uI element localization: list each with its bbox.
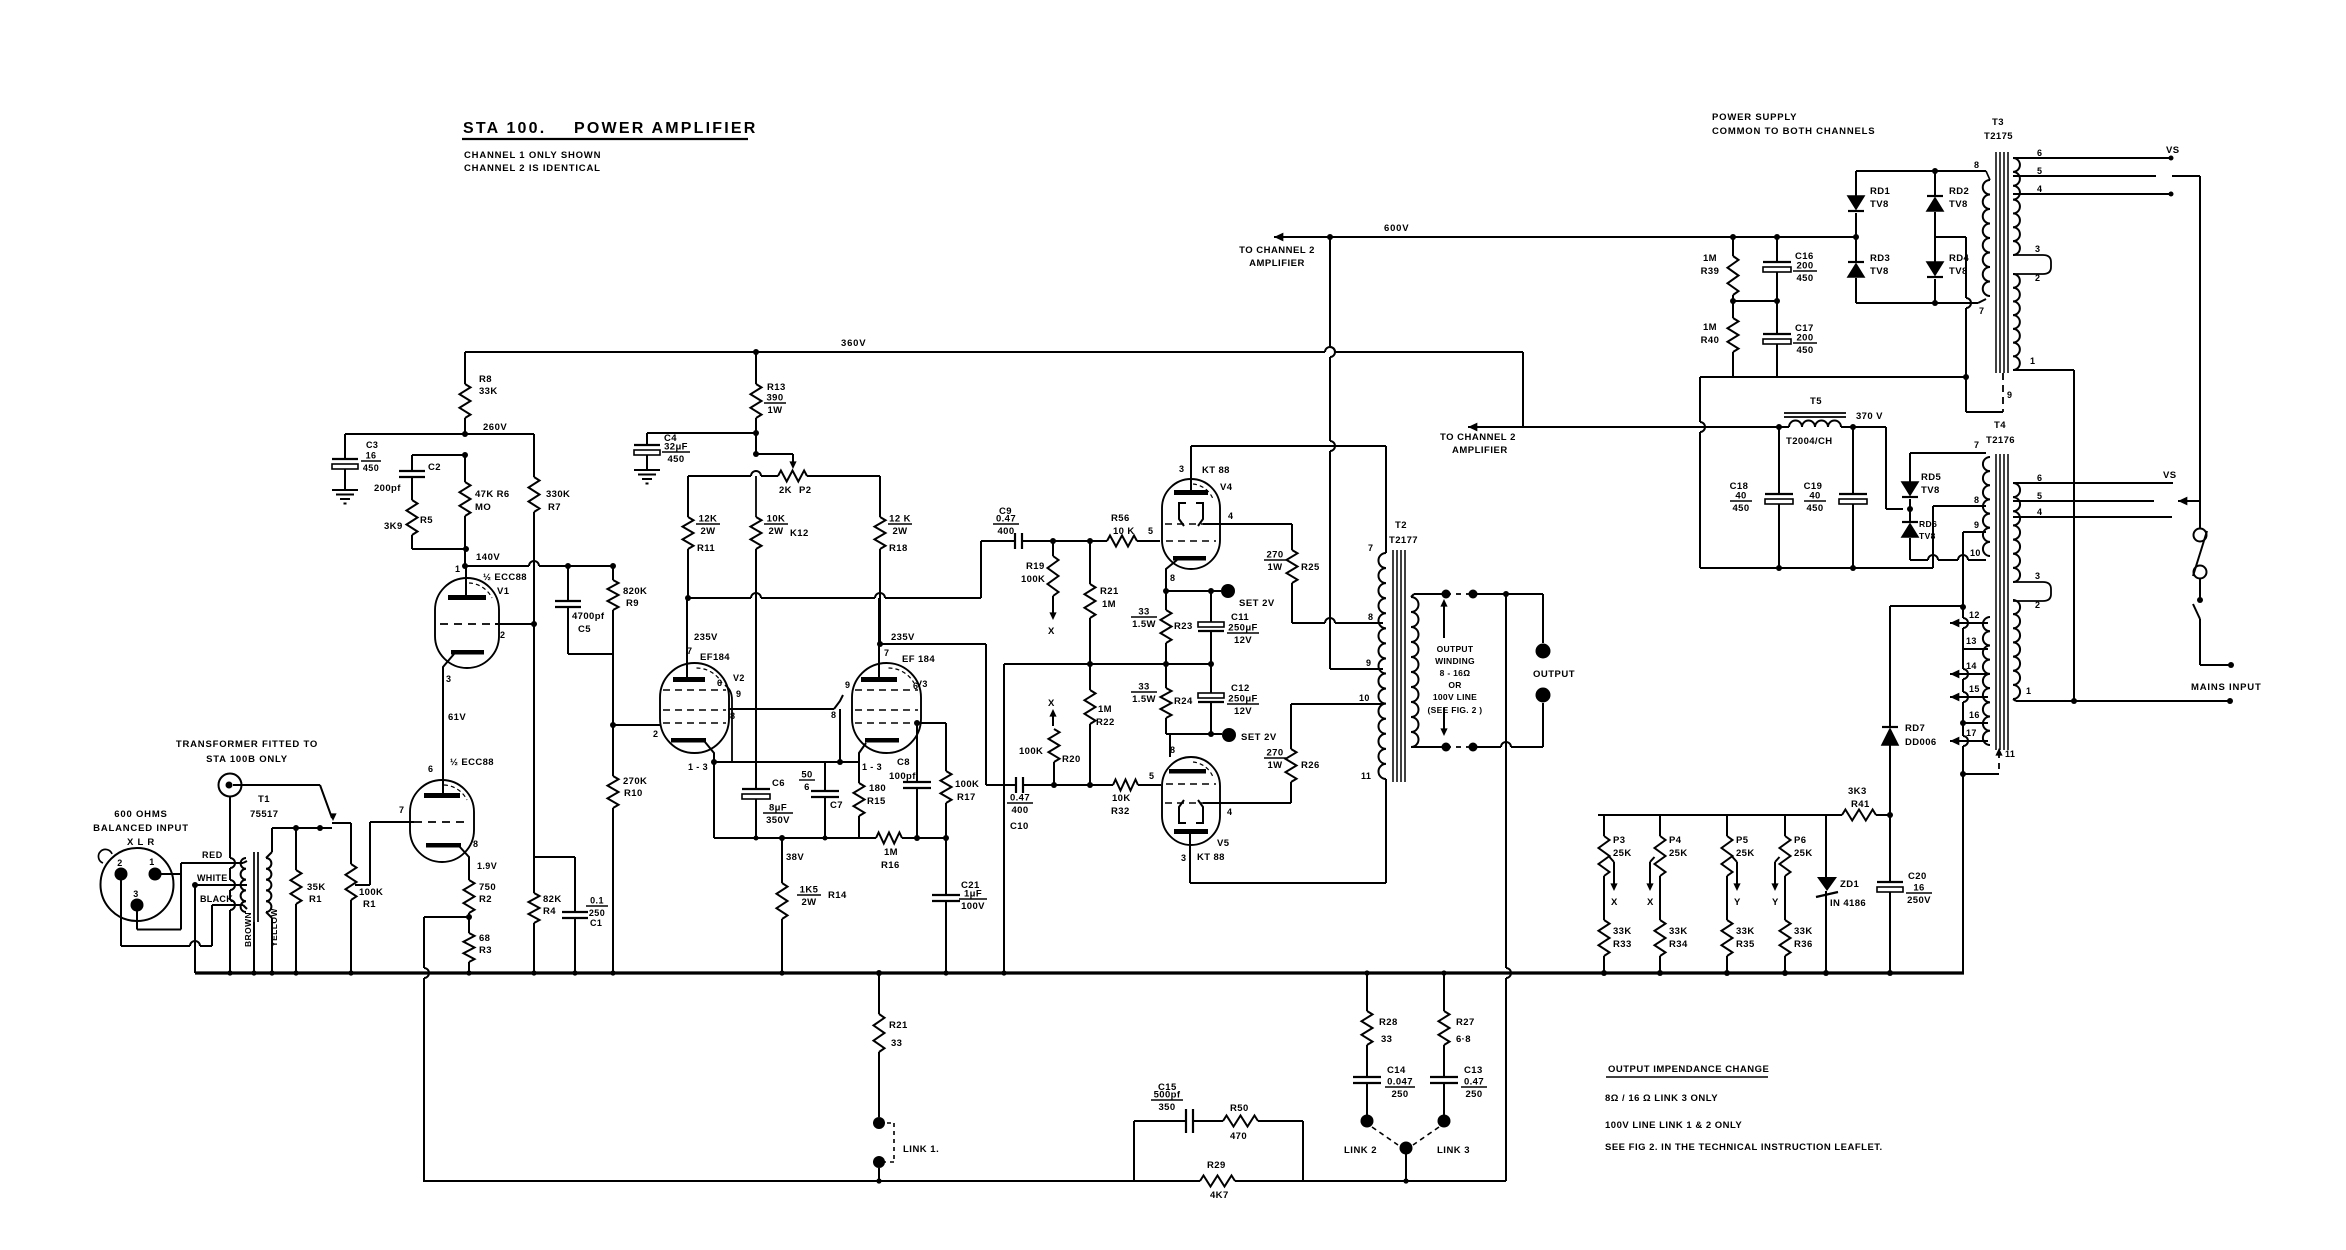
svg-text:235V: 235V bbox=[694, 632, 718, 643]
T4 primary lower bbox=[1983, 617, 1990, 745]
svg-text:33K: 33K bbox=[479, 386, 498, 397]
wire V3 grid node bbox=[917, 722, 946, 724]
svg-text:2: 2 bbox=[2035, 273, 2040, 283]
T3 tap5 line to switch bbox=[2013, 175, 2156, 177]
wire 600V rail bbox=[1274, 233, 1283, 242]
svg-text:R14: R14 bbox=[828, 890, 847, 901]
potentiometer P3 25K bbox=[1603, 815, 1605, 836]
svg-text:33K: 33K bbox=[1669, 926, 1688, 937]
wire output common down bbox=[1505, 593, 1507, 595]
zener ZD1 IN4166 bbox=[1825, 815, 1827, 877]
svg-text:1M: 1M bbox=[1102, 599, 1116, 610]
capacitor C17 200/450 bbox=[1776, 301, 1778, 334]
svg-text:STA 100B ONLY: STA 100B ONLY bbox=[206, 754, 288, 765]
svg-text:MO: MO bbox=[475, 502, 491, 513]
svg-text:3K3: 3K3 bbox=[1848, 786, 1867, 797]
svg-text:0.1: 0.1 bbox=[590, 896, 604, 906]
T3 taps 3-2 jumper bbox=[2013, 255, 2051, 274]
svg-text:T3: T3 bbox=[1992, 117, 2004, 128]
svg-text:LINK 3: LINK 3 bbox=[1437, 1145, 1470, 1156]
svg-text:450: 450 bbox=[1806, 503, 1823, 514]
svg-text:R2: R2 bbox=[479, 894, 492, 905]
resistor R21 1M grid leak bbox=[1089, 541, 1091, 584]
T4 lead 12 bbox=[1950, 619, 1959, 628]
svg-text:T2175: T2175 bbox=[1984, 131, 2013, 142]
svg-text:LINK 2: LINK 2 bbox=[1344, 1145, 1377, 1156]
svg-text:600 OHMS: 600 OHMS bbox=[114, 809, 167, 820]
T4 lead 13 bbox=[1963, 648, 1988, 650]
svg-text:R33: R33 bbox=[1613, 939, 1632, 950]
T3 tap4 line bbox=[2013, 193, 2171, 195]
diode RD6 TV8 bbox=[1909, 509, 1911, 522]
T3 tap1 line bbox=[2013, 369, 2074, 371]
capacitor C10 0.47/400 bbox=[1015, 777, 1017, 793]
wire V2 cathode node line bbox=[711, 759, 717, 765]
resistor R41 3K3 bbox=[1842, 810, 1876, 821]
svg-text:X L R: X L R bbox=[127, 837, 155, 848]
svg-text:(SEE FIG. 2 ): (SEE FIG. 2 ) bbox=[1428, 705, 1483, 715]
svg-text:AMPLIFIER: AMPLIFIER bbox=[1452, 445, 1508, 456]
svg-text:35K: 35K bbox=[307, 882, 326, 893]
T4 screen 11 dashed bbox=[1960, 771, 1966, 777]
T4 lead 16 bbox=[1963, 722, 1988, 724]
svg-text:750: 750 bbox=[479, 882, 496, 893]
svg-text:47K R6: 47K R6 bbox=[475, 489, 510, 500]
wire T3 tap1 down to mains bbox=[2073, 370, 2075, 701]
svg-text:T2177: T2177 bbox=[1389, 535, 1418, 546]
resistor R22 1M bbox=[1089, 664, 1091, 690]
svg-text:C2: C2 bbox=[428, 462, 441, 473]
svg-text:1: 1 bbox=[455, 564, 460, 574]
svg-text:2: 2 bbox=[653, 729, 658, 739]
svg-text:R21: R21 bbox=[889, 1020, 908, 1031]
svg-text:450: 450 bbox=[1796, 273, 1813, 284]
svg-text:R19: R19 bbox=[1026, 561, 1045, 572]
capacitor C14 0.047 250 bbox=[1353, 1076, 1381, 1078]
svg-text:8Ω / 16 Ω LINK 3 ONLY: 8Ω / 16 Ω LINK 3 ONLY bbox=[1605, 1093, 1718, 1104]
svg-text:350: 350 bbox=[1158, 1102, 1175, 1113]
svg-text:R24: R24 bbox=[1174, 696, 1193, 707]
svg-text:C7: C7 bbox=[830, 800, 843, 811]
resistor R32 10K bbox=[1090, 784, 1113, 786]
svg-text:75517: 75517 bbox=[250, 809, 278, 820]
svg-text:470: 470 bbox=[1230, 1131, 1247, 1142]
resistor R2 750 bbox=[464, 880, 475, 913]
T3 secondary lower bbox=[2013, 274, 2020, 370]
svg-text:16: 16 bbox=[1913, 883, 1924, 894]
svg-text:BALANCED INPUT: BALANCED INPUT bbox=[93, 823, 189, 834]
svg-text:R25: R25 bbox=[1301, 562, 1320, 573]
svg-text:P6: P6 bbox=[1794, 835, 1806, 846]
svg-text:250: 250 bbox=[1391, 1089, 1408, 1100]
wire bridge AC2 bbox=[1935, 236, 1966, 238]
svg-text:KT 88: KT 88 bbox=[1197, 852, 1225, 863]
svg-text:10: 10 bbox=[1970, 548, 1981, 558]
svg-text:100K: 100K bbox=[1019, 746, 1043, 757]
svg-text:6: 6 bbox=[717, 678, 722, 688]
svg-text:TV8: TV8 bbox=[1921, 485, 1940, 496]
resistor R28 33 bbox=[1366, 973, 1368, 1011]
resistor R29 4K7 bbox=[1200, 1176, 1235, 1187]
wire C9 to R56 bbox=[1053, 540, 1090, 542]
svg-text:370 V: 370 V bbox=[1856, 411, 1883, 422]
wire box left bbox=[1699, 377, 1701, 422]
diode RD5 TV8 bbox=[1909, 453, 1911, 482]
V1 lower cathode to R2 bbox=[426, 843, 461, 848]
svg-text:40: 40 bbox=[1809, 491, 1820, 502]
T3 tap6 line VS bbox=[2013, 157, 2171, 159]
svg-text:R15: R15 bbox=[867, 796, 886, 807]
svg-text:9: 9 bbox=[2007, 390, 2012, 400]
svg-text:WHITE: WHITE bbox=[197, 873, 228, 883]
ground for C4 bbox=[634, 469, 660, 471]
T4 tap6 line VS bbox=[2013, 482, 2173, 484]
svg-text:R29: R29 bbox=[1207, 1160, 1226, 1171]
svg-text:7: 7 bbox=[1979, 306, 1984, 316]
svg-text:100K: 100K bbox=[1021, 574, 1045, 585]
svg-text:0.47: 0.47 bbox=[1464, 1077, 1484, 1088]
resistor R17 100K bbox=[941, 771, 952, 803]
wire box bottom bbox=[1700, 567, 1933, 569]
XLR pin 3 bbox=[131, 899, 144, 912]
link 2 and link 3 selector bbox=[1361, 1115, 1374, 1128]
svg-text:R11: R11 bbox=[697, 543, 715, 554]
svg-text:16: 16 bbox=[1969, 710, 1980, 720]
svg-text:R23: R23 bbox=[1174, 621, 1193, 632]
svg-text:250V: 250V bbox=[1907, 895, 1931, 906]
svg-text:820K: 820K bbox=[623, 586, 647, 597]
node mid bias line bbox=[1163, 661, 1169, 667]
XLR pin 1 bbox=[149, 868, 162, 881]
jack sleeve to bus bbox=[229, 797, 231, 859]
svg-text:4: 4 bbox=[2037, 184, 2042, 194]
svg-text:330K: 330K bbox=[546, 489, 570, 500]
mains switch lower blade bbox=[2193, 604, 2200, 619]
svg-text:100V: 100V bbox=[961, 901, 985, 912]
wire secondary top to output bbox=[1411, 594, 1414, 597]
resistor R15 180 bbox=[858, 762, 860, 783]
svg-text:R16: R16 bbox=[881, 860, 900, 871]
T4 tap5 line bbox=[2013, 500, 2154, 502]
svg-text:8: 8 bbox=[1974, 160, 1979, 170]
capacitor C11 250uF 12V bbox=[1210, 591, 1212, 622]
svg-text:T2176: T2176 bbox=[1986, 435, 2015, 446]
svg-text:33K: 33K bbox=[1613, 926, 1632, 937]
T4 tap4 line bbox=[2013, 516, 2172, 518]
ground for C3 bbox=[332, 489, 358, 491]
svg-text:8: 8 bbox=[1170, 573, 1175, 583]
resistor R34 33K bbox=[1655, 920, 1666, 956]
T4 tap1 mains line bbox=[2013, 699, 2016, 701]
svg-text:V1: V1 bbox=[497, 586, 510, 597]
capacitor C18 40/450 bbox=[1776, 424, 1782, 430]
svg-text:8μF: 8μF bbox=[769, 803, 787, 814]
svg-text:C12: C12 bbox=[1231, 683, 1250, 694]
svg-text:100V LINE LINK 1 & 2 ONLY: 100V LINE LINK 1 & 2 ONLY bbox=[1605, 1120, 1742, 1131]
capacitor C5 4700pf bbox=[565, 563, 571, 569]
T2 core bbox=[1392, 550, 1394, 782]
svg-text:TV8: TV8 bbox=[1870, 199, 1889, 210]
svg-text:260V: 260V bbox=[483, 422, 507, 433]
wire bridge bottom to T3 pin7 bbox=[1932, 300, 1938, 306]
wire VS switch column bbox=[2199, 176, 2201, 501]
wire pin3 strap bbox=[136, 911, 138, 930]
svg-text:1K5: 1K5 bbox=[800, 885, 819, 896]
capacitor C8 100pf bbox=[914, 720, 920, 726]
svg-text:IN 4186: IN 4186 bbox=[1830, 898, 1866, 909]
svg-text:RD2: RD2 bbox=[1949, 186, 1969, 197]
svg-text:X: X bbox=[1647, 897, 1654, 908]
svg-text:VS: VS bbox=[2163, 470, 2176, 481]
V2 cathode bbox=[671, 738, 706, 743]
svg-text:32μF: 32μF bbox=[664, 442, 688, 453]
svg-text:R35: R35 bbox=[1736, 939, 1755, 950]
svg-text:C20: C20 bbox=[1908, 871, 1927, 882]
svg-text:TV8: TV8 bbox=[1870, 266, 1889, 277]
svg-text:R34: R34 bbox=[1669, 939, 1688, 950]
svg-text:R20: R20 bbox=[1062, 754, 1081, 765]
diode RD2 TV8 bbox=[1932, 168, 1938, 174]
svg-text:R4: R4 bbox=[543, 906, 556, 917]
svg-text:YELLOW: YELLOW bbox=[269, 908, 279, 947]
svg-text:33: 33 bbox=[1138, 682, 1149, 693]
svg-text:450: 450 bbox=[1796, 345, 1813, 356]
svg-text:250μF: 250μF bbox=[1228, 623, 1257, 634]
T4 secondary lower bbox=[2013, 600, 2020, 699]
svg-text:3: 3 bbox=[2035, 244, 2040, 254]
svg-text:2W: 2W bbox=[892, 526, 907, 537]
svg-text:2W: 2W bbox=[768, 526, 783, 537]
svg-text:400: 400 bbox=[1011, 805, 1028, 816]
svg-text:33: 33 bbox=[891, 1038, 902, 1049]
svg-text:R39: R39 bbox=[1701, 266, 1720, 277]
potentiometer P4 25K bbox=[1659, 815, 1661, 836]
wire V2 pin9 to V3 pin9 bbox=[729, 708, 834, 710]
wire 360V rail bbox=[465, 351, 1325, 353]
svg-text:R36: R36 bbox=[1794, 939, 1813, 950]
svg-text:1.9V: 1.9V bbox=[477, 861, 497, 871]
svg-text:C10: C10 bbox=[1010, 821, 1029, 832]
svg-text:C1: C1 bbox=[590, 918, 602, 928]
T4 lead 15 bbox=[1950, 693, 1959, 702]
svg-text:11: 11 bbox=[2005, 749, 2015, 759]
wire choke to RD5 RD6 node bbox=[1841, 426, 1886, 428]
svg-text:7: 7 bbox=[1974, 440, 1979, 450]
T4 primary upper bbox=[1983, 457, 1990, 556]
resistor R4 82K bbox=[533, 857, 535, 893]
capacitor C2 200pf bbox=[412, 454, 465, 456]
svg-text:12 K: 12 K bbox=[889, 514, 911, 525]
svg-text:R17: R17 bbox=[957, 792, 976, 803]
resistor R27 6.8 bbox=[1443, 973, 1445, 1011]
svg-text:25K: 25K bbox=[1736, 848, 1755, 859]
svg-text:½ ECC88: ½ ECC88 bbox=[450, 757, 494, 768]
svg-text:R21: R21 bbox=[1100, 586, 1119, 597]
svg-text:8: 8 bbox=[831, 710, 836, 720]
svg-text:T1: T1 bbox=[258, 794, 270, 805]
svg-text:100V LINE: 100V LINE bbox=[1433, 692, 1477, 702]
svg-text:5: 5 bbox=[2037, 491, 2042, 501]
svg-text:2W: 2W bbox=[801, 897, 816, 908]
svg-text:13: 13 bbox=[1966, 636, 1977, 646]
resistor R20 100K bbox=[1053, 728, 1055, 730]
svg-text:ZD1: ZD1 bbox=[1840, 879, 1859, 890]
svg-text:140V: 140V bbox=[476, 552, 500, 563]
svg-text:RED: RED bbox=[202, 850, 223, 860]
wire T4 pin7 bbox=[1910, 452, 1986, 454]
svg-text:R8: R8 bbox=[479, 374, 492, 385]
svg-text:RD3: RD3 bbox=[1870, 253, 1890, 264]
svg-text:C13: C13 bbox=[1464, 1065, 1483, 1076]
svg-text:250: 250 bbox=[589, 908, 605, 918]
svg-text:200: 200 bbox=[1796, 333, 1813, 344]
svg-text:R56: R56 bbox=[1111, 513, 1130, 524]
svg-text:16: 16 bbox=[366, 451, 377, 461]
svg-text:2: 2 bbox=[117, 858, 122, 868]
svg-text:1.5W: 1.5W bbox=[1132, 619, 1156, 630]
svg-text:8: 8 bbox=[473, 839, 478, 849]
svg-text:3K9: 3K9 bbox=[384, 521, 403, 532]
resistor R16 1M bbox=[876, 833, 902, 844]
svg-text:T2: T2 bbox=[1395, 520, 1407, 531]
wire WHITE centre tap to bus bbox=[195, 884, 243, 886]
wire T4 pin8 to box bbox=[1933, 505, 1986, 507]
svg-text:10K: 10K bbox=[767, 514, 786, 525]
svg-text:R27: R27 bbox=[1456, 1017, 1475, 1028]
wire T2 tap8 bbox=[1292, 622, 1325, 624]
wire V1 upper grid pin2 bbox=[495, 623, 534, 625]
svg-text:7: 7 bbox=[687, 646, 692, 656]
resistor R1 35K bbox=[295, 828, 297, 870]
mains switch upper bbox=[2194, 529, 2207, 542]
svg-text:R40: R40 bbox=[1701, 335, 1720, 346]
output terminal lower bbox=[1536, 688, 1551, 703]
wire V1 grid pin 7 bbox=[370, 821, 414, 823]
svg-text:6: 6 bbox=[2037, 148, 2042, 158]
diode RD3 TV8 bbox=[1853, 234, 1859, 240]
svg-text:9: 9 bbox=[736, 689, 741, 699]
svg-text:400: 400 bbox=[997, 526, 1014, 537]
svg-text:RD1: RD1 bbox=[1870, 186, 1891, 197]
resistor R10 270K bbox=[608, 776, 619, 808]
capacitor C4 32uF 450 bbox=[753, 430, 759, 436]
wire 61V cathode link bbox=[442, 672, 444, 780]
potentiometer P2 2K track bbox=[688, 475, 751, 477]
svg-text:C14: C14 bbox=[1387, 1065, 1406, 1076]
wire T2 tap10 bbox=[1291, 703, 1383, 705]
resistor R21 33 link1 branch bbox=[876, 970, 882, 976]
T4 lead 17 bbox=[1950, 737, 1959, 746]
capacitor C20 16/250V bbox=[1889, 815, 1891, 882]
svg-text:POWER SUPPLY: POWER SUPPLY bbox=[1712, 112, 1797, 123]
svg-text:250μF: 250μF bbox=[1228, 694, 1257, 705]
svg-text:R1: R1 bbox=[309, 894, 322, 905]
potentiometer P6 25K bbox=[1784, 815, 1786, 836]
svg-text:0.047: 0.047 bbox=[1387, 1077, 1413, 1088]
svg-text:25K: 25K bbox=[1794, 848, 1813, 859]
svg-text:1: 1 bbox=[2030, 356, 2035, 366]
svg-text:Y: Y bbox=[1734, 897, 1741, 908]
wire mid node line bbox=[1087, 661, 1093, 667]
svg-text:COMMON TO BOTH CHANNELS: COMMON TO BOTH CHANNELS bbox=[1712, 126, 1875, 137]
svg-text:7: 7 bbox=[399, 805, 404, 815]
svg-text:BLACK: BLACK bbox=[200, 894, 233, 904]
svg-text:17: 17 bbox=[1966, 728, 1977, 738]
wire pin1 to RED bbox=[161, 873, 181, 875]
capacitor C9 0.47/400 bbox=[981, 540, 1015, 542]
svg-text:AMPLIFIER: AMPLIFIER bbox=[1249, 258, 1305, 269]
svg-text:V5: V5 bbox=[1217, 838, 1230, 849]
wire V3 plate 235V node bbox=[877, 641, 883, 647]
svg-text:6: 6 bbox=[913, 681, 918, 691]
svg-text:½ ECC88: ½ ECC88 bbox=[483, 572, 527, 583]
capacitor C19 40/450 bbox=[1850, 424, 1856, 430]
svg-text:450: 450 bbox=[667, 454, 684, 465]
resistor R50 470 bbox=[1193, 1120, 1223, 1122]
svg-text:25K: 25K bbox=[1613, 848, 1632, 859]
svg-text:1M: 1M bbox=[1098, 704, 1112, 715]
output terminal upper bbox=[1536, 644, 1551, 659]
svg-text:68: 68 bbox=[479, 933, 490, 944]
node SET 2V lower bbox=[1166, 733, 1222, 735]
svg-text:R32: R32 bbox=[1111, 806, 1130, 817]
capacitor C16 200/450 bbox=[1774, 234, 1780, 240]
capacitor C3 16/450 bbox=[344, 434, 346, 459]
wire RD7 feed bbox=[1890, 605, 1963, 607]
svg-text:1M: 1M bbox=[1703, 322, 1717, 333]
svg-text:1W: 1W bbox=[1267, 760, 1282, 771]
wire 360V to channel 2 bbox=[1522, 352, 1524, 427]
wire T4 pin9 to RD7 bbox=[1963, 531, 1986, 533]
svg-text:TRANSFORMER FITTED TO: TRANSFORMER FITTED TO bbox=[176, 739, 318, 750]
svg-text:5: 5 bbox=[1149, 771, 1154, 781]
svg-text:40: 40 bbox=[1735, 491, 1746, 502]
resistor R5 3K9 bbox=[411, 477, 413, 500]
diode RD4 TV8 bbox=[1934, 237, 1936, 262]
svg-text:12V: 12V bbox=[1234, 635, 1252, 646]
svg-text:P2: P2 bbox=[799, 485, 811, 496]
svg-text:500pf: 500pf bbox=[1154, 1090, 1181, 1101]
wire cathode bias bus 38V bbox=[714, 837, 876, 839]
svg-text:KT 88: KT 88 bbox=[1202, 465, 1230, 476]
svg-text:450: 450 bbox=[1732, 503, 1749, 514]
svg-text:X: X bbox=[1048, 698, 1055, 709]
svg-text:450: 450 bbox=[363, 463, 379, 473]
svg-text:T2004/CH: T2004/CH bbox=[1786, 436, 1833, 447]
svg-text:OUTPUT IMPENDANCE CHANGE: OUTPUT IMPENDANCE CHANGE bbox=[1608, 1064, 1769, 1075]
wire bias pot rail bbox=[1598, 814, 1842, 816]
svg-text:1W: 1W bbox=[1267, 562, 1282, 573]
svg-text:C8: C8 bbox=[897, 757, 910, 768]
triode V1 upper half ECC88 bbox=[435, 578, 499, 668]
svg-text:POWER AMPLIFIER: POWER AMPLIFIER bbox=[574, 120, 758, 137]
svg-text:2: 2 bbox=[500, 630, 505, 640]
wire pin2 to BLACK bbox=[120, 880, 122, 946]
wire driver output node to C9 bbox=[685, 595, 691, 601]
wire RD6 to T4 tap10 bbox=[1910, 559, 1928, 561]
svg-text:14: 14 bbox=[1966, 661, 1977, 671]
svg-text:1μF: 1μF bbox=[964, 889, 982, 900]
svg-text:R5: R5 bbox=[420, 515, 433, 526]
svg-text:C6: C6 bbox=[772, 778, 785, 789]
svg-text:38V: 38V bbox=[786, 852, 804, 863]
svg-text:C5: C5 bbox=[578, 624, 591, 635]
T1 secondary top lead bbox=[266, 852, 272, 858]
wire V2 pin6 to cathode node bbox=[725, 685, 732, 762]
svg-text:12K: 12K bbox=[699, 514, 718, 525]
resistor R39 1M bbox=[1730, 234, 1736, 240]
wire V2 grid bbox=[611, 723, 616, 728]
